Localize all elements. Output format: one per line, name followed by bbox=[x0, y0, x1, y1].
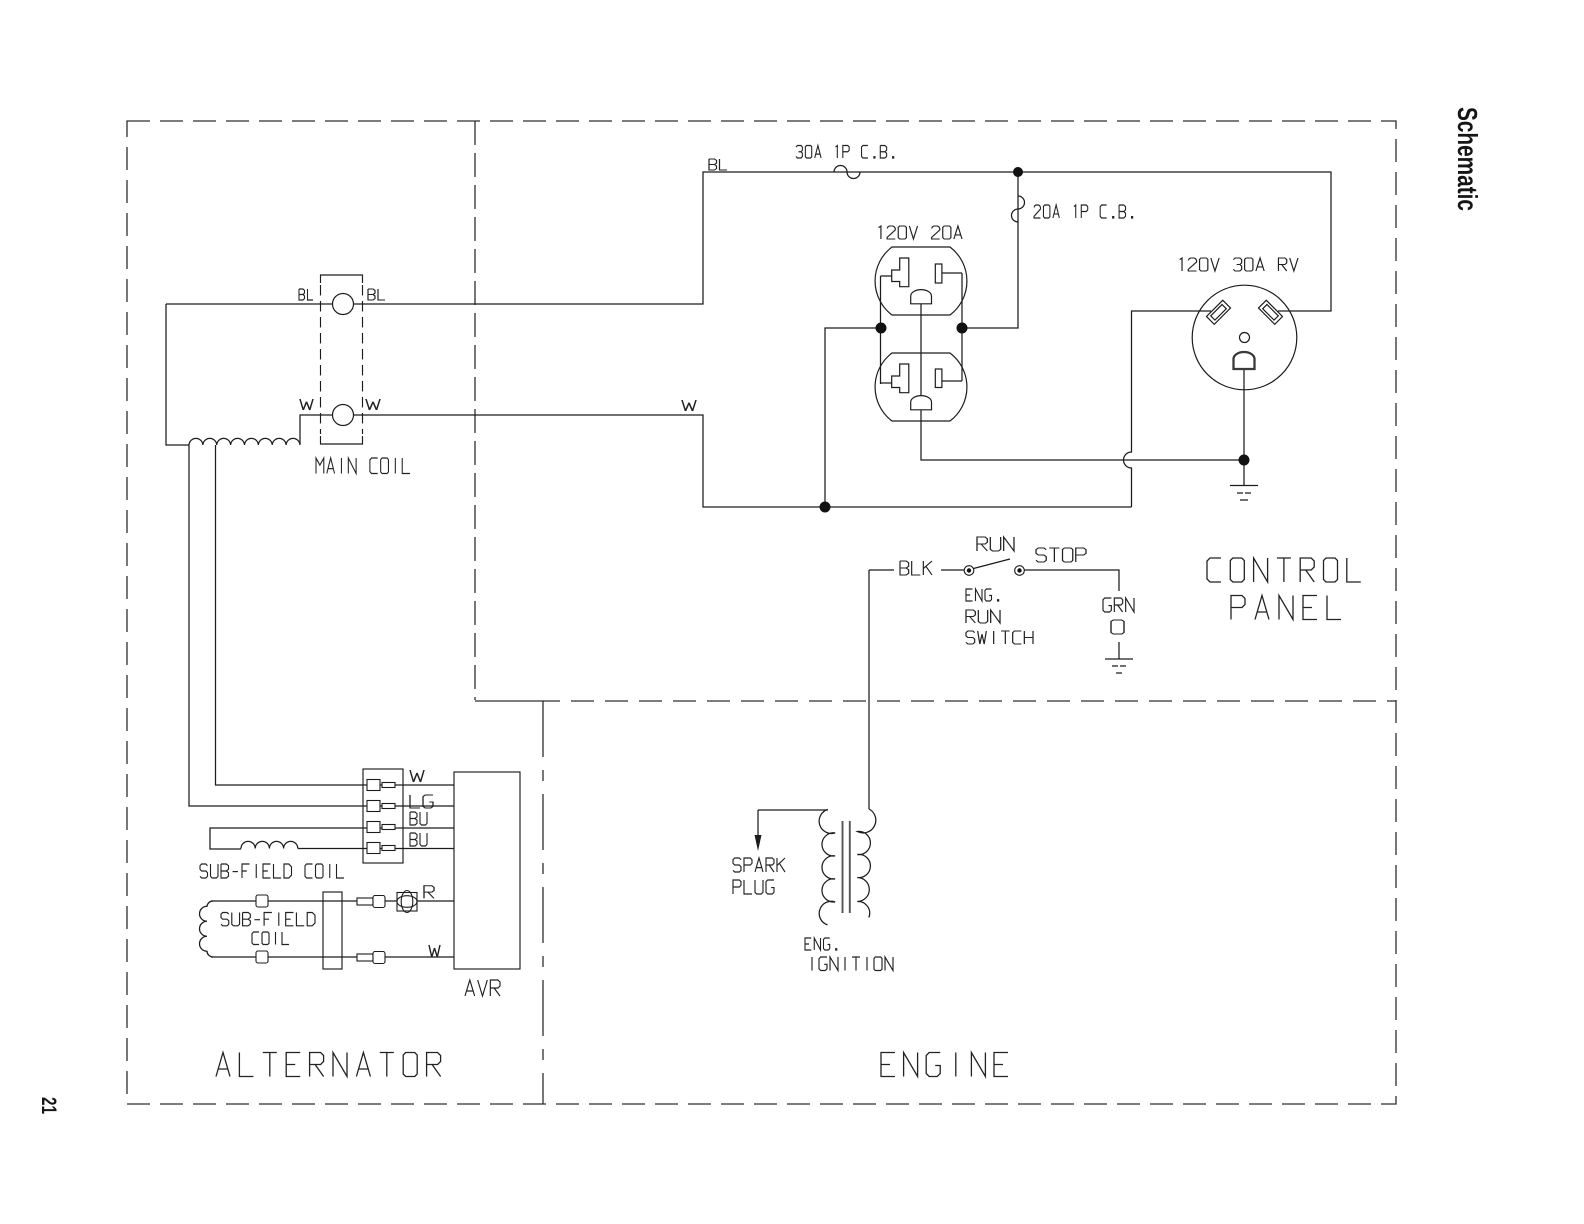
svg-text:Schematic: Schematic bbox=[1452, 107, 1483, 211]
svg-text:21: 21 bbox=[37, 1097, 60, 1114]
